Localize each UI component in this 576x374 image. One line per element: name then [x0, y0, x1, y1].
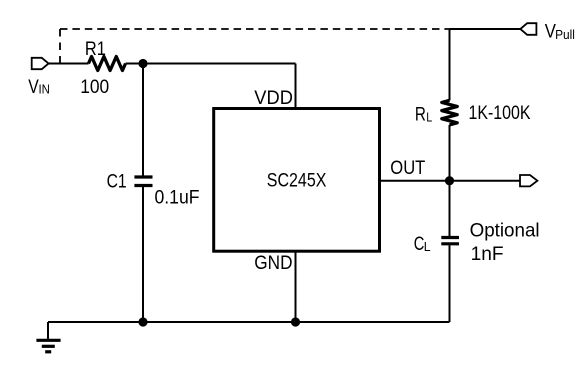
svg-text:VDD: VDD: [254, 87, 293, 109]
svg-text:0.1uF: 0.1uF: [155, 187, 200, 209]
svg-text:R1: R1: [85, 38, 106, 60]
svg-text:OUT: OUT: [390, 157, 425, 179]
svg-text:GND: GND: [254, 252, 292, 274]
svg-text:SC245X: SC245X: [267, 169, 327, 191]
svg-text:100: 100: [80, 76, 109, 98]
svg-text:Pull: Pull: [555, 28, 575, 42]
svg-text:IN: IN: [39, 83, 50, 97]
svg-text:R: R: [415, 103, 426, 125]
svg-text:L: L: [424, 240, 431, 254]
svg-text:V: V: [28, 76, 39, 98]
svg-text:Optional: Optional: [470, 220, 540, 242]
svg-text:1nF: 1nF: [471, 243, 504, 265]
svg-text:L: L: [426, 111, 432, 125]
svg-text:C1: C1: [107, 171, 127, 193]
svg-text:1K-100K: 1K-100K: [469, 102, 531, 124]
